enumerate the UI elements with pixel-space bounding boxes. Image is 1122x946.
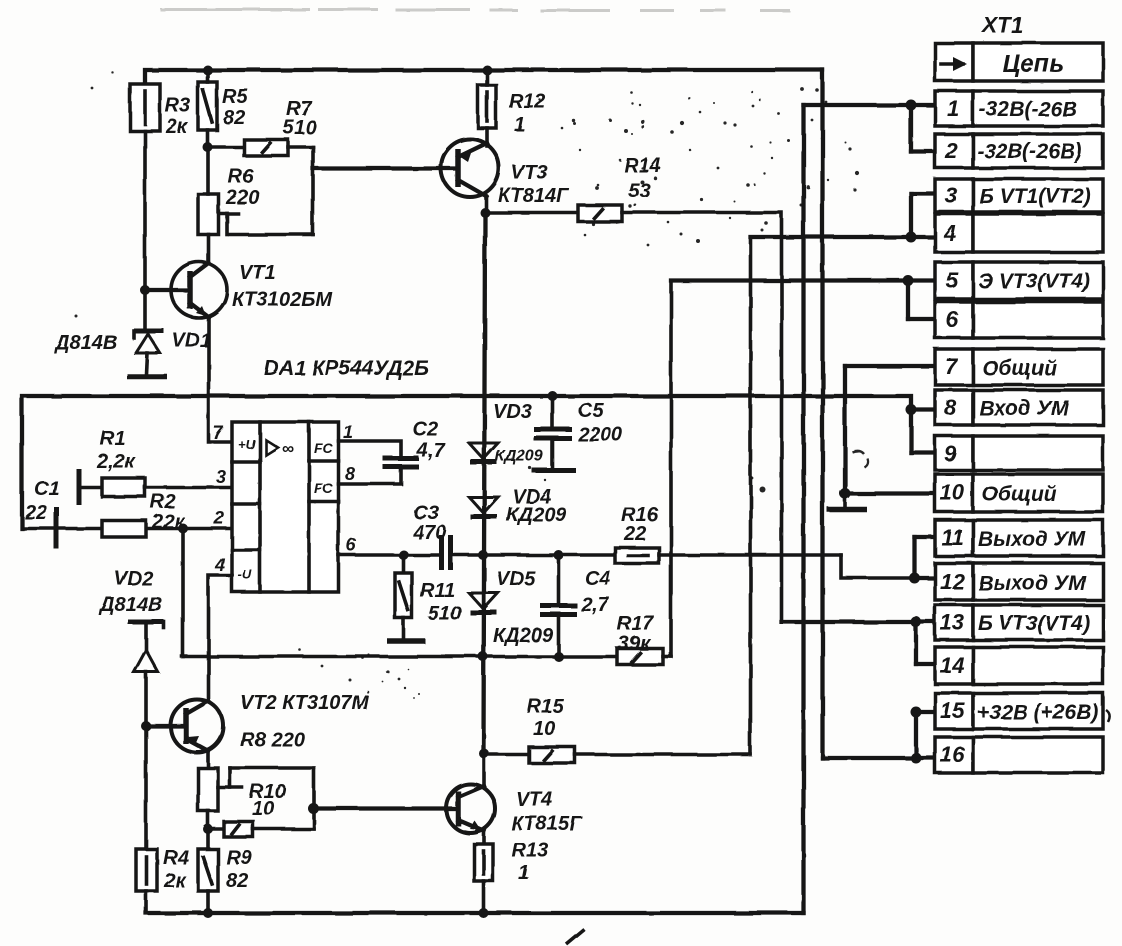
- zener diode VD1: [134, 331, 164, 374]
- node output / R11 junction: [399, 550, 409, 560]
- wire R5 bottom to R6/R7 junction: [206, 130, 210, 147]
- node VT4 collector / R15 junction: [479, 749, 489, 759]
- svg-text:Выход УМ: Выход УМ: [978, 572, 1086, 595]
- svg-text:Э VT3(VT4): Э VT3(VT4): [978, 270, 1090, 293]
- wire node to R10: [208, 827, 224, 831]
- wire R17 right to pin5 descender: [663, 655, 671, 659]
- svg-text:R2: R2: [150, 491, 176, 513]
- svg-text:2к: 2к: [163, 870, 186, 892]
- svg-text:R6: R6: [228, 166, 254, 188]
- wire VT3 collector down to node: [484, 196, 488, 213]
- svg-text:R12: R12: [509, 91, 546, 113]
- svg-text:КД209: КД209: [495, 448, 543, 465]
- wire pin 3 stub: [911, 191, 935, 195]
- node R9 rail junction: [203, 908, 213, 918]
- svg-text:510: 510: [283, 117, 316, 139]
- wire top +32V rail: [145, 70, 823, 84]
- connector pin 7 row: [935, 349, 1103, 385]
- node VT4 base line junction: [308, 803, 319, 814]
- wire loop right vertical: [311, 147, 315, 235]
- svg-text:КТ3102БМ: КТ3102БМ: [232, 289, 333, 311]
- transistor VT4 КТ815Г: [446, 784, 495, 833]
- svg-text:53: 53: [628, 180, 650, 202]
- svg-text:1: 1: [343, 422, 353, 442]
- svg-text:82: 82: [223, 107, 245, 129]
- wire R12 bottom to VT3 emitter: [485, 128, 489, 146]
- svg-text:82: 82: [226, 870, 248, 892]
- resistor R12: [478, 85, 496, 128]
- svg-text:Общий: Общий: [982, 357, 1057, 380]
- svg-text:R17: R17: [617, 613, 655, 635]
- node C4 top junction: [554, 550, 564, 560]
- svg-text:10: 10: [940, 480, 965, 505]
- connector pin 9 row: [935, 436, 1103, 470]
- svg-text:10: 10: [533, 718, 555, 740]
- svg-text:С5: С5: [578, 400, 604, 422]
- svg-text:39к: 39к: [618, 633, 651, 655]
- svg-text:2: 2: [213, 508, 224, 528]
- wire R10 right to loop: [253, 827, 314, 831]
- svg-text:1: 1: [518, 862, 529, 884]
- svg-text:VD3: VD3: [493, 401, 532, 423]
- ground for VD1: [127, 374, 167, 380]
- connector pin 16 row: [935, 737, 1103, 773]
- wire R8 bottom to R9 node: [206, 811, 210, 829]
- wire R4 bottom to rail corner: [144, 891, 148, 913]
- svg-text:Б VT1(VT2): Б VT1(VT2): [979, 185, 1091, 208]
- wire R9 bottom to rail: [206, 891, 210, 913]
- node C4 bottom junction: [554, 652, 564, 662]
- wire VT4 emitter to R13: [482, 831, 486, 844]
- wire output jog down to pins 11/12: [841, 555, 915, 578]
- node chain on input line: [548, 391, 558, 401]
- connector pin 2 row: [935, 134, 1103, 168]
- node pin 13 junction: [911, 617, 922, 628]
- transistor VT1 КТ3102БМ: [145, 262, 227, 318]
- wire pins 11-12 bracket: [912, 537, 916, 578]
- node pin 10 junction: [840, 488, 851, 499]
- svg-text:VT1: VT1: [239, 262, 276, 284]
- wire IC pin 1 to C2 top: [339, 441, 402, 456]
- wire C2 bottom to IC pin 8: [339, 467, 402, 484]
- svg-text:7: 7: [945, 354, 959, 379]
- node R8/R9/R10 junction: [203, 824, 213, 834]
- connector pin 10 row: [935, 474, 1103, 512]
- svg-text:R14: R14: [624, 155, 661, 177]
- svg-text:С4: С4: [585, 568, 611, 590]
- zener diode VD2: [128, 622, 164, 849]
- wire pins 5-6 bracket: [906, 281, 910, 320]
- svg-text:4: 4: [943, 221, 956, 246]
- svg-text:Д814В: Д814В: [98, 594, 162, 616]
- connector pin 11 row: [935, 520, 1103, 556]
- node VT1 base / VD1 junction: [140, 285, 150, 295]
- resistor R2: [102, 521, 146, 538]
- svg-text:Общий: Общий: [982, 483, 1057, 506]
- svg-text:13: 13: [940, 610, 964, 635]
- wire pins 1-2 bracket: [909, 105, 913, 152]
- svg-text:С1: С1: [34, 478, 60, 500]
- svg-text:1: 1: [947, 96, 959, 121]
- svg-text:Выход УМ: Выход УМ: [978, 528, 1086, 551]
- wire R15 right to descender: [575, 753, 751, 757]
- wire R13 bottom to rail: [482, 881, 486, 913]
- ground common stub: [843, 494, 847, 509]
- svg-text:220: 220: [225, 187, 259, 209]
- ground for R11: [387, 638, 425, 644]
- svg-text:14: 14: [940, 653, 964, 678]
- wire pin 14 stub: [916, 662, 935, 666]
- wire pin 9 stub: [911, 450, 935, 454]
- resistor R5: [198, 82, 217, 130]
- svg-text:3: 3: [216, 467, 226, 487]
- wire junction to R7: [208, 145, 245, 149]
- wire feedback descender to lower line: [181, 529, 185, 657]
- capacitor C2: [383, 459, 419, 468]
- resistor R13: [474, 844, 493, 881]
- svg-text:+32В (+26В): +32В (+26В): [977, 701, 1098, 724]
- wire pin 2 stub: [911, 149, 935, 153]
- svg-text:2200: 2200: [577, 424, 623, 446]
- svg-text:∞: ∞: [282, 439, 294, 458]
- connector pin 13 row: [935, 605, 1103, 640]
- svg-text:4,7: 4,7: [416, 440, 446, 462]
- wire pin 13 line: [782, 620, 936, 624]
- wire VT3 collector to VT4 collector vertical with diode chain: [484, 213, 486, 754]
- svg-text:КТ815Г: КТ815Г: [511, 813, 583, 835]
- node pin 16 junction: [911, 753, 922, 764]
- svg-text:Д814В: Д814В: [53, 332, 117, 354]
- svg-text:КД209: КД209: [493, 625, 554, 647]
- op-amp DA1 КР544УД2Б: [232, 422, 339, 592]
- resistor R3: [130, 84, 160, 131]
- svg-text:-32В(-26В): -32В(-26В): [977, 140, 1082, 163]
- svg-text:FC: FC: [314, 440, 334, 456]
- resistor R16: [615, 548, 659, 564]
- svg-text:2к: 2к: [165, 116, 188, 138]
- capacitor C3: [442, 535, 451, 570]
- wire R16 to output jog: [659, 553, 841, 557]
- svg-text:12: 12: [940, 569, 965, 594]
- node VT3 collector / R14 junction: [480, 208, 490, 218]
- svg-text:R11: R11: [420, 580, 455, 602]
- svg-text:R3: R3: [165, 95, 191, 117]
- resistor R9: [198, 849, 218, 891]
- wire loop bottom: [230, 233, 313, 237]
- wire pin 10 stub: [845, 491, 935, 495]
- wire input long line to pin 8: [22, 396, 911, 529]
- diode VD5 КД209: [469, 593, 498, 613]
- svg-text:4: 4: [214, 555, 225, 575]
- capacitor C1: [57, 469, 80, 549]
- connector pin 15 row: [935, 693, 1103, 729]
- svg-text:VD2: VD2: [114, 568, 153, 590]
- svg-text:R8 220: R8 220: [240, 729, 305, 751]
- wire pins 8-9 bracket: [909, 410, 913, 453]
- svg-text:6: 6: [346, 535, 357, 555]
- wire inverting input line to IC pin 2: [22, 527, 232, 531]
- svg-text:9: 9: [944, 441, 957, 466]
- wire bottom -32V rail: [146, 911, 804, 915]
- resistor R10: [224, 822, 253, 838]
- svg-text:DA1 КР544УД2Б: DA1 КР544УД2Б: [264, 357, 429, 380]
- svg-text:С2: С2: [413, 419, 439, 441]
- node R5 top rail junction: [203, 65, 213, 75]
- svg-text:+U: +U: [238, 437, 256, 452]
- wire IC pin 4 down to VT2 collector: [209, 576, 233, 702]
- wire pin 5 line: [671, 278, 935, 282]
- wire R6 tap vertical: [225, 214, 229, 235]
- node pin 1 junction: [906, 100, 917, 111]
- wire node to R14: [486, 211, 578, 215]
- wire pin 4 line: [751, 235, 936, 239]
- connector pin 8 row: [935, 390, 1103, 425]
- wire pins 13-14 bracket: [914, 622, 918, 664]
- wire R3 bottom to VT1 base node and VD1: [143, 131, 147, 330]
- svg-text:R15: R15: [527, 696, 565, 718]
- wire IC pin 6 output to node: [339, 553, 442, 557]
- diode VD3 КД209: [469, 443, 498, 462]
- wire R6 bottom to VT1 collector: [207, 235, 211, 264]
- wire R6 tap: [219, 212, 239, 216]
- wire R8 tap: [218, 786, 242, 790]
- svg-text:1: 1: [514, 114, 525, 136]
- wire C1 to R1: [79, 486, 102, 490]
- wire +32V rail descender to pin 16: [820, 70, 824, 758]
- wire R10 loop right vertical: [312, 768, 316, 829]
- svg-text:КД209: КД209: [506, 504, 567, 526]
- wire pins 3-4 bracket: [909, 194, 913, 238]
- svg-text:VD1: VD1: [172, 330, 211, 352]
- wire VT4 collector up to node: [482, 753, 486, 786]
- wire C3 right along output line: [451, 553, 616, 557]
- svg-text:VT2 КТ3107М: VT2 КТ3107М: [240, 692, 369, 714]
- svg-text:С3: С3: [413, 502, 439, 524]
- node chain on feedback line: [478, 652, 488, 662]
- connector pin 12 row: [935, 563, 1103, 600]
- svg-text:VT4: VT4: [516, 789, 553, 811]
- svg-text:10: 10: [252, 798, 274, 820]
- svg-text:16: 16: [940, 742, 965, 767]
- wire pin 7 stub: [845, 364, 935, 368]
- node pin 12 junction: [909, 573, 920, 584]
- svg-text:R9: R9: [226, 847, 252, 869]
- connector pin 6 row: [935, 302, 1103, 338]
- resistor R1: [102, 478, 145, 497]
- resistor R14: [578, 205, 622, 222]
- resistor R15: [529, 747, 575, 763]
- node R5/R6/R7 junction: [203, 142, 213, 152]
- svg-text:2,7: 2,7: [580, 594, 610, 616]
- resistor R8 trimmer: [198, 768, 218, 811]
- svg-text:15: 15: [940, 698, 965, 723]
- svg-text:-32В(-26В: -32В(-26В: [979, 98, 1077, 121]
- svg-text:Цепь: Цепь: [1002, 50, 1064, 78]
- svg-text:22: 22: [24, 502, 47, 524]
- wire pin 1 stub: [911, 103, 935, 107]
- diode VD4 КД209: [469, 497, 498, 517]
- connector pin 3 row: [935, 179, 1103, 212]
- svg-text:R1: R1: [100, 428, 126, 450]
- wire feedback line: [182, 655, 617, 659]
- node pin 4 junction: [906, 232, 917, 243]
- capacitor C5: [532, 396, 576, 471]
- wire VT2 emitter to R8: [206, 751, 210, 768]
- transistor VT3 КТ814Г: [313, 139, 499, 197]
- wire pins 3/4 descender to R15: [749, 237, 753, 755]
- svg-text:7: 7: [213, 423, 224, 443]
- wire node to R15: [484, 753, 529, 757]
- svg-text:11: 11: [941, 525, 964, 550]
- wire pin 8 stub: [911, 407, 935, 411]
- transistor VT2 КТ3107М: [146, 700, 224, 753]
- svg-text:R4: R4: [163, 847, 189, 869]
- svg-text:3: 3: [945, 183, 957, 208]
- resistor R4: [136, 849, 157, 891]
- resistor R17: [617, 649, 663, 665]
- wire pin 16 line: [823, 756, 936, 760]
- node chain on output line: [478, 550, 488, 560]
- wire pin 12 stub: [915, 576, 936, 580]
- wire pin 1 line: [804, 103, 912, 107]
- svg-text:470: 470: [412, 522, 446, 544]
- connector pin 4 row: [935, 214, 1103, 252]
- wire VT1 emitter down to IC pin7: [209, 317, 233, 442]
- wire pins 15-16 bracket: [914, 712, 918, 758]
- connector pin 1 row: [935, 91, 1103, 126]
- resistor R7: [244, 140, 288, 156]
- node R13 rail junction: [479, 908, 489, 918]
- wire pin 6 stub: [908, 317, 935, 321]
- svg-text:XT1: XT1: [981, 13, 1023, 38]
- wire R14 right then down to pin 13 line: [622, 213, 782, 623]
- connector pin 5 row: [935, 262, 1103, 299]
- node pin 8 junction: [906, 404, 917, 415]
- svg-text:VD5: VD5: [496, 568, 536, 590]
- svg-text:510: 510: [428, 603, 461, 625]
- wire VT4 base line: [314, 806, 458, 810]
- wire R8 tap vertical: [228, 768, 232, 788]
- node VT2 base junction: [141, 721, 151, 731]
- svg-text:FC: FC: [314, 480, 334, 496]
- svg-text:5: 5: [946, 268, 959, 293]
- node feedback junction on pin2 line: [178, 524, 188, 534]
- wire pin 5 descender: [669, 281, 673, 657]
- svg-text:Вход УМ: Вход УМ: [979, 397, 1069, 420]
- wire pin 11 stub: [915, 535, 936, 539]
- svg-text:6: 6: [946, 307, 959, 332]
- wire R7 right to loop corner: [288, 145, 313, 149]
- svg-text:VT3: VT3: [511, 162, 548, 184]
- node pin 15 junction: [911, 707, 922, 718]
- connector pin 14 row: [935, 647, 1103, 684]
- svg-text:2: 2: [944, 138, 958, 163]
- svg-text:8: 8: [944, 395, 957, 420]
- svg-text:8: 8: [345, 464, 355, 484]
- wire R1 to IC pin 3: [145, 486, 232, 490]
- resistor R6 trimmer: [198, 194, 219, 235]
- svg-text:22: 22: [623, 523, 646, 545]
- svg-text:КТ814Г: КТ814Г: [498, 185, 570, 207]
- svg-text:R5: R5: [222, 86, 248, 108]
- node R12 top rail junction: [482, 65, 492, 75]
- wire R10 loop top: [230, 766, 314, 770]
- wire R9 top lead: [206, 829, 210, 849]
- svg-text:R13: R13: [512, 840, 549, 862]
- wire pins 7-10 bracket: [843, 366, 847, 494]
- svg-text:-U: -U: [238, 567, 252, 582]
- wire -32V descender pins 1/2 to bottom rail: [801, 105, 805, 913]
- node pin 5 junction: [903, 275, 914, 286]
- svg-text:Б VT3(VT4): Б VT3(VT4): [978, 612, 1090, 635]
- capacitor C4: [540, 555, 577, 657]
- resistor R11: [395, 555, 412, 639]
- connector XT1 header row: [935, 43, 1103, 81]
- wire pin 15 stub: [916, 710, 935, 714]
- svg-text:2,2к: 2,2к: [96, 451, 136, 473]
